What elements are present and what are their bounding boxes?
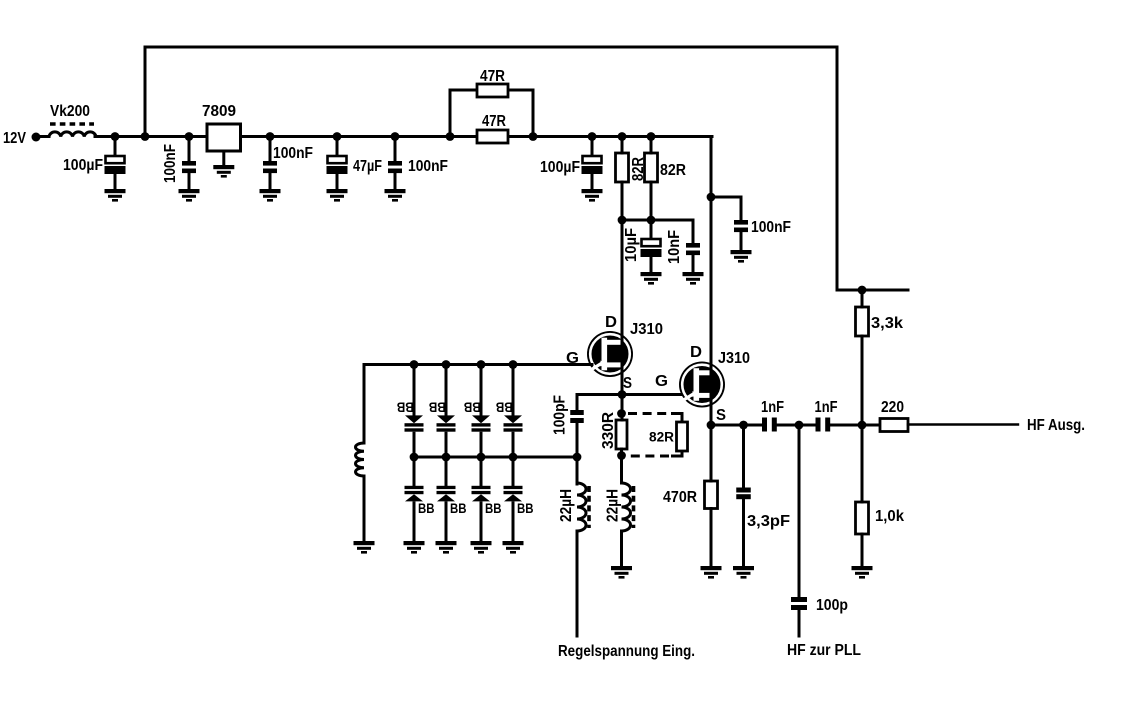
capacitor C12 3,3pF [742,425,745,488]
node rail / C4 [333,132,342,141]
wire rail to R4 [650,137,653,154]
ground (varactor column 4) [503,541,524,554]
diode D2a BB varactor (top) [437,364,456,457]
inductor L1 Vk200 [49,124,96,137]
node rail / C5 [391,132,400,141]
diode D1a BB varactor (top) [405,364,424,457]
diode D2b BB varactor (bottom) [437,457,456,541]
wire 47R bypass loop right [508,90,533,137]
wire Q1 gate rail (tank top) [364,363,592,366]
wire C9 to ground [740,233,743,251]
node 12V input terminal [32,133,41,142]
node rail / R4 [647,132,656,141]
wire R4 to node A [650,182,653,220]
ground (C6) [582,189,603,202]
wire R7 to ground [710,509,713,567]
svg-text:D: D [605,314,617,331]
wire Q2 source lead [710,394,713,425]
node 330R bottom [617,451,626,460]
svg-text:47R: 47R [480,68,505,85]
node rail / C1 [111,132,120,141]
resistor R4 82R [645,153,658,182]
svg-text:47R: 47R [482,113,506,130]
capacitor C6 100µF [591,137,594,157]
node rail / C3 [266,132,275,141]
ground (C8) [683,272,704,285]
svg-text:3,3pF: 3,3pF [747,513,790,530]
svg-text:BB: BB [418,501,435,516]
svg-text:100µF: 100µF [63,157,103,174]
wire Q1 drain lead [621,182,624,345]
svg-text:22µH: 22µH [605,489,622,522]
capacitor C8 10nF [692,220,695,243]
node 330R top [617,409,626,418]
node output divider [858,421,867,430]
ground (L4) [611,566,632,579]
node rail / 47R-pair left [446,132,455,141]
diode D4a BB varactor (top) [504,364,523,457]
svg-text:G: G [655,373,668,390]
resistor R6 82R (alternative, in dashed box) [677,422,688,451]
ground (7809) [213,165,234,178]
wire Q1 source lead [621,363,624,394]
node varactor column 4 / mid rail [509,453,518,462]
svg-text:Vk200: Vk200 [50,103,90,120]
svg-text:82R: 82R [660,162,686,179]
resistor R5 330R [616,420,627,449]
inductor L4 22µH [622,483,631,531]
wire varactor mid rail (tuning voltage) [414,456,577,459]
resistor R1 47R (upper) [477,84,508,97]
resistor R9 1,0k [856,502,869,534]
ground (varactor column 2) [436,541,457,554]
ground (C7) [641,272,662,285]
svg-text:100nF: 100nF [751,219,791,236]
capacitor C11 1nF [762,418,777,432]
wire +12V rail (left section) [95,135,477,138]
wire rail to R3 [621,137,624,154]
svg-text:470R: 470R [663,489,697,506]
wire C13 to R9/220 [830,424,880,427]
diode D4b BB varactor (bottom) [504,457,523,541]
svg-text:7809: 7809 [202,103,236,120]
diode D1b BB varactor (bottom) [405,457,424,541]
capacitor C2 100nF [188,137,191,162]
svg-text:S: S [623,375,632,392]
svg-text:BB: BB [496,400,513,415]
capacitor C13 1nF [816,418,831,432]
resistor R3 82R [616,153,629,182]
wire branch to C9 [711,197,741,220]
capacitor C7 10µF [650,220,653,239]
wire Q1 source to Q2 gate [577,393,685,396]
wire R9 to ground [861,534,864,566]
svg-text:330R: 330R [600,412,617,449]
dashed box (alternative source resistor branch) [628,414,682,457]
resistor R7 470R [705,481,718,509]
svg-text:BB: BB [429,400,446,415]
svg-text:12V: 12V [3,130,27,147]
wire source node to R5 [621,395,624,421]
svg-text:10nF: 10nF [666,230,683,264]
wire +9V rail (right section) [508,135,712,138]
capacitor C3 100nF [269,137,272,162]
node rail / C6 [588,132,597,141]
svg-text:100pF: 100pF [552,395,569,435]
wire 47R bypass loop left [450,90,477,137]
svg-text:82R: 82R [649,430,674,445]
svg-text:3,3k: 3,3k [871,315,903,332]
svg-text:10µF: 10µF [623,228,640,262]
svg-text:100nF: 100nF [408,158,448,175]
transistor Q2 J310 (buffer) [679,362,725,408]
wire Q2 drain lead [710,197,713,376]
wire source node to R7 [710,425,713,481]
wire top bypass loop to output stage [145,47,908,290]
svg-text:S: S [716,407,726,424]
wire L3 to Regelspannung input [576,531,579,636]
svg-text:47µF: 47µF [353,158,382,175]
wire 12V terminal to L1 [36,135,49,138]
wire rail down to Q2 drain [710,137,713,377]
svg-text:220: 220 [881,399,904,416]
wire R5 to L4 [620,449,623,483]
svg-text:J310: J310 [718,350,750,367]
svg-text:BB: BB [464,400,481,415]
node Q1 source junction [618,390,627,399]
node varactor column 1 / mid rail [410,453,419,462]
resistor R8 3,3k [856,307,869,336]
ground (C4) [327,189,348,202]
wire R3 to node A [621,182,624,220]
node A at R4 column [647,216,656,225]
capacitor C4 47µF [336,137,339,157]
ground (C1) [105,189,126,202]
capacitor C14 100p (PLL feed) [798,425,801,597]
node varactor column 2 / gate rail [442,360,451,369]
svg-text:1,0k: 1,0k [875,508,904,525]
node A (R3/R4 junction) at R3 column [618,216,627,225]
ground (C2) [179,189,200,202]
inductor L2 (tank coil, unlabeled) [363,365,366,444]
svg-text:1nF: 1nF [761,399,784,416]
node varactor column 1 / gate rail [410,360,419,369]
capacitor C10 100pF [576,395,579,411]
svg-text:100µF: 100µF [540,159,580,176]
wire output node to R9 [861,425,864,502]
diode D3a BB varactor (top) [472,364,491,457]
wire bypass to R8 [861,290,864,307]
ground (C12) [733,566,754,579]
node PLL tap [795,421,804,430]
svg-text:100nF: 100nF [273,145,313,162]
ground (C5) [385,189,406,202]
ground (R9) [852,566,873,579]
ground (varactor column 3) [471,541,492,554]
svg-text:22µH: 22µH [558,489,575,522]
node varactor column 4 / gate rail [509,360,518,369]
diode D3b BB varactor (bottom) [472,457,491,541]
node rail / R3 [618,132,627,141]
svg-text:J310: J310 [630,321,663,338]
node Q2 source [707,421,716,430]
capacitor C9 100nF [734,220,748,232]
capacitor C5 100nF [394,137,397,162]
svg-text:BB: BB [397,400,414,415]
transistor Q1 J310 (oscillator) [587,331,633,377]
svg-text:100nF: 100nF [162,144,179,183]
node bypass loop / R8 [858,286,867,295]
svg-text:HF zur PLL: HF zur PLL [787,642,861,659]
wire Q2 source to C11 [711,424,762,427]
resistor R2 47R (lower, in rail) [477,130,508,143]
regulator U1 7809 [207,124,241,151]
node output rail / C12 [739,421,748,430]
wire 7809 ground pin [222,151,225,165]
svg-text:1nF: 1nF [815,399,838,416]
svg-text:BB: BB [450,501,467,516]
inductor L3 22µH (tuning voltage feed) [576,457,579,484]
node rail / top bypass riser [141,132,150,141]
node rail / 47R-pair right [529,132,538,141]
wire HF output [908,423,1018,425]
ground (C9) [731,250,752,263]
node varactor column 3 / gate rail [477,360,486,369]
svg-text:Regelspannung Eing.: Regelspannung Eing. [558,643,695,660]
svg-text:100p: 100p [816,597,848,614]
ground (C3) [260,189,281,202]
svg-text:D: D [690,344,702,361]
ground (R7) [701,566,722,579]
capacitor C1 100µF [114,137,117,157]
ground (varactor column 1) [404,541,425,554]
wire C11 to C13 [777,424,816,427]
node varactor column 3 / mid rail [477,453,486,462]
resistor R10 220 [880,419,908,432]
node Q2 drain column / C9 branch [707,193,716,202]
svg-text:BB: BB [485,501,502,516]
wire node A horizontal [622,219,693,222]
node mid rail / C10 / L3 [573,453,582,462]
ground (L2) [354,541,375,554]
node rail / C2 [185,132,194,141]
svg-text:BB: BB [517,501,534,516]
wire R8 to output node [861,336,864,425]
svg-text:HF Ausg.: HF Ausg. [1027,417,1085,434]
node varactor column 2 / mid rail [442,453,451,462]
